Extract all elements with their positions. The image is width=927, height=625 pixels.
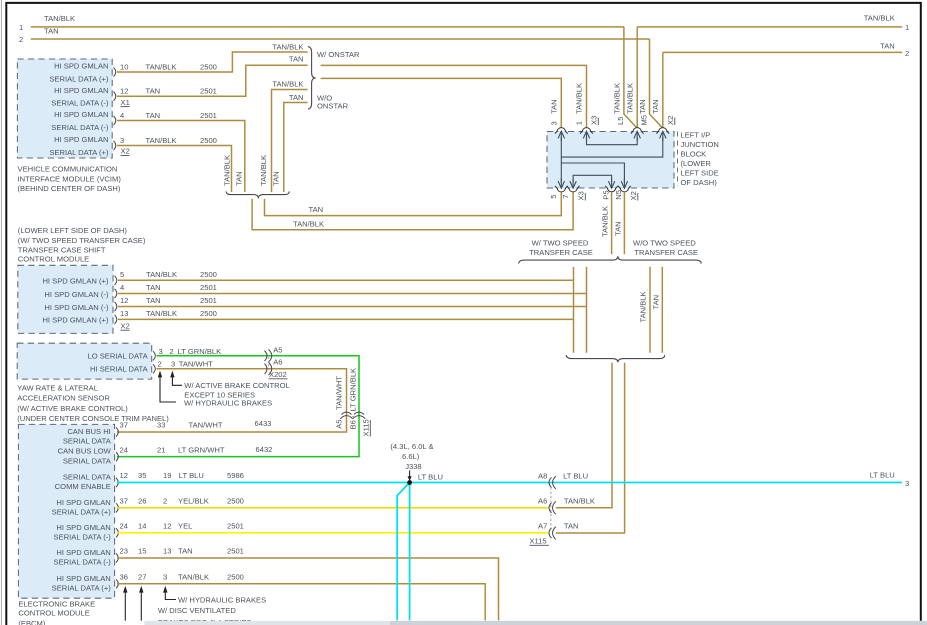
- svg-text:10: 10: [120, 62, 128, 71]
- wire LT BLU branch down 2: [397, 483, 409, 621]
- svg-text:LEFT SIDE: LEFT SIDE: [681, 169, 719, 178]
- svg-text:TAN/BLK: TAN/BLK: [146, 62, 177, 71]
- svg-text:TRANSFER CASE: TRANSFER CASE: [634, 248, 698, 257]
- brace transfer merge: [566, 355, 665, 362]
- wire merged TAN to junction pin3: [321, 78, 562, 127]
- svg-text:TAN: TAN: [550, 99, 559, 114]
- junction block name: [677, 132, 679, 187]
- svg-text:12: 12: [120, 471, 128, 480]
- svg-text:6432: 6432: [256, 445, 273, 454]
- wire w/o onstar TAN/BLK branch: [272, 90, 308, 193]
- svg-text:SERIAL DATA (-): SERIAL DATA (-): [51, 99, 109, 108]
- svg-text:TAN/BLK: TAN/BLK: [639, 291, 648, 322]
- svg-text:5986: 5986: [227, 471, 244, 480]
- wire 2 TAN right segment: [663, 51, 902, 53]
- svg-text:(LOWER LEFT SIDE OF DASH): (LOWER LEFT SIDE OF DASH): [18, 226, 128, 235]
- svg-text:TAN: TAN: [44, 27, 59, 36]
- svg-text:TAN: TAN: [289, 93, 304, 102]
- yaw sensor box: [17, 343, 152, 379]
- svg-text:13: 13: [163, 547, 171, 556]
- svg-text:P5: P5: [602, 190, 611, 199]
- svg-text:LT GRN/BLK: LT GRN/BLK: [178, 347, 222, 356]
- svg-text:6.6L): 6.6L): [402, 452, 420, 461]
- svg-text:21: 21: [157, 445, 165, 454]
- svg-text:X202: X202: [269, 370, 287, 379]
- VCIM pin brackets: [114, 67, 116, 76]
- svg-text:2: 2: [905, 49, 909, 58]
- svg-text:TAN/BLK: TAN/BLK: [44, 14, 75, 23]
- svg-text:TAN: TAN: [309, 205, 324, 214]
- svg-text:A5: A5: [335, 420, 344, 429]
- svg-text:35: 35: [138, 471, 146, 480]
- svg-text:EXCEPT 10 SERIES: EXCEPT 10 SERIES: [184, 390, 255, 399]
- junction pin P5: [607, 188, 615, 192]
- svg-text:3: 3: [120, 136, 124, 145]
- svg-text:4: 4: [120, 111, 124, 120]
- wire EBCM serial data comm enable LT BLU 5986: [117, 482, 902, 484]
- wire LT BLU branch down 1: [409, 483, 411, 621]
- svg-text:HI SERIAL DATA: HI SERIAL DATA: [90, 364, 149, 373]
- junction block box: [547, 132, 674, 189]
- svg-text:SERIAL DATA (-): SERIAL DATA (-): [51, 123, 109, 132]
- junction bus 3-5 vertical: [560, 137, 562, 183]
- svg-text:(LOWER: (LOWER: [681, 159, 712, 168]
- junction pin 3: [557, 128, 565, 132]
- svg-text:CAN BUS LOW: CAN BUS LOW: [58, 447, 112, 456]
- svg-text:(EBCM): (EBCM): [18, 619, 45, 625]
- svg-text:B6: B6: [349, 420, 358, 429]
- connector X115 A8: [549, 477, 552, 487]
- svg-text:LT BLU: LT BLU: [563, 471, 588, 480]
- svg-text:TAN: TAN: [146, 111, 161, 120]
- svg-text:36: 36: [120, 573, 128, 582]
- svg-text:HI SPD GMLAN: HI SPD GMLAN: [54, 86, 108, 95]
- EBCM config arrow 3: [163, 586, 167, 593]
- svg-text:(W/ ACTIVE BRAKE CONTROL): (W/ ACTIVE BRAKE CONTROL): [17, 404, 128, 413]
- VCIM module box: [17, 59, 112, 158]
- junction pin 5: [557, 188, 565, 192]
- svg-text:24: 24: [120, 522, 128, 531]
- svg-text:W/O TWO SPEED: W/O TWO SPEED: [633, 238, 696, 247]
- connector X115 upper: [342, 412, 352, 414]
- junction pin N5: [620, 188, 628, 192]
- svg-text:ONSTAR: ONSTAR: [317, 101, 349, 110]
- svg-text:14: 14: [138, 522, 146, 531]
- EBCM config arrow 2: [139, 586, 143, 593]
- svg-text:A6: A6: [273, 358, 282, 367]
- svg-text:SERIAL DATA: SERIAL DATA: [63, 437, 112, 446]
- svg-text:W/ DISC VENTILATED: W/ DISC VENTILATED: [158, 606, 236, 615]
- svg-text:SERIAL DATA (+): SERIAL DATA (+): [52, 584, 112, 593]
- svg-text:TAN/BLK: TAN/BLK: [864, 14, 895, 23]
- svg-text:13: 13: [120, 309, 128, 318]
- svg-text:X1: X1: [121, 98, 130, 107]
- node J338 splice dot: [407, 480, 412, 485]
- svg-text:3: 3: [905, 479, 909, 488]
- svg-text:2501: 2501: [200, 111, 217, 120]
- wire w/o tcase TAN/BLK: [649, 267, 651, 353]
- junction pin 7: [569, 188, 577, 192]
- svg-text:2: 2: [158, 360, 162, 369]
- svg-text:2: 2: [19, 35, 23, 44]
- svg-text:23: 23: [120, 547, 128, 556]
- svg-text:X2: X2: [666, 116, 675, 125]
- wire LO serial LT GRN/BLK: [117, 356, 359, 457]
- svg-text:TAN: TAN: [272, 171, 281, 186]
- svg-text:X115: X115: [529, 537, 546, 546]
- svg-text:ACCELERATION SENSOR: ACCELERATION SENSOR: [17, 394, 110, 403]
- svg-text:TAN/BLK: TAN/BLK: [146, 270, 177, 279]
- svg-text:2: 2: [163, 497, 167, 506]
- svg-text:W/ TWO SPEED: W/ TWO SPEED: [532, 238, 589, 247]
- svg-text:24: 24: [120, 445, 128, 454]
- svg-text:TAN: TAN: [880, 42, 895, 51]
- svg-text:A6: A6: [538, 496, 547, 505]
- connector X115 dashed link: [550, 487, 552, 528]
- svg-text:7: 7: [561, 195, 570, 199]
- wire merged TAN/BLK to junction pin7: [252, 192, 573, 230]
- svg-text:2501: 2501: [200, 283, 217, 292]
- svg-text:TAN/BLK: TAN/BLK: [223, 155, 232, 186]
- EBCM config arrow 1: [123, 586, 127, 593]
- svg-text:1: 1: [905, 23, 909, 32]
- svg-text:37: 37: [120, 497, 128, 506]
- svg-text:X2: X2: [121, 147, 130, 156]
- svg-text:26: 26: [138, 497, 146, 506]
- yaw config arrow 2: [170, 371, 174, 378]
- svg-text:2500: 2500: [200, 136, 217, 145]
- svg-text:TAN/BLK: TAN/BLK: [178, 573, 209, 582]
- connector X202: [265, 351, 268, 361]
- wire VCIM pin4 TAN 2501: [117, 121, 245, 193]
- wire 2 TAN left segment: [31, 38, 650, 40]
- svg-text:X115: X115: [362, 419, 371, 436]
- wire VCIM pin12 TAN 2501: [117, 65, 308, 96]
- svg-text:TAN: TAN: [614, 221, 623, 236]
- junction bus 3-M5: [561, 137, 663, 157]
- svg-text:12: 12: [120, 87, 128, 96]
- svg-text:2: 2: [169, 347, 173, 356]
- svg-text:2500: 2500: [200, 270, 217, 279]
- svg-text:L5: L5: [616, 117, 625, 125]
- svg-text:TRANSFER CASE SHIFT: TRANSFER CASE SHIFT: [18, 245, 106, 254]
- svg-text:X2: X2: [629, 191, 638, 200]
- svg-text:HI SPD GMLAN: HI SPD GMLAN: [54, 135, 108, 144]
- svg-text:SERIAL DATA (+): SERIAL DATA (+): [52, 508, 112, 517]
- wire w/ tcase TAN/BLK: [573, 267, 575, 353]
- wire w/ tcase TAN: [586, 267, 588, 353]
- svg-text:TAN/BLK: TAN/BLK: [259, 155, 268, 186]
- wire EBCM hi spd gmlan TAN/BLK 2500: [117, 584, 485, 621]
- svg-text:SERIAL DATA: SERIAL DATA: [63, 456, 112, 465]
- svg-text:A8: A8: [538, 471, 547, 480]
- svg-text:LT BLU: LT BLU: [870, 470, 895, 479]
- wire merged TAN to junction pin5: [265, 192, 562, 215]
- svg-text:TRANSFER CASE: TRANSFER CASE: [529, 248, 593, 257]
- svg-text:TAN/WHT: TAN/WHT: [189, 421, 223, 430]
- junction bus 7-P5: [573, 175, 612, 182]
- wire line2-right drop to M5: [662, 52, 664, 127]
- wire N5 TAN down: [623, 192, 625, 254]
- wire transfer pin12 TAN: [118, 306, 587, 308]
- svg-text:BLOCK: BLOCK: [681, 150, 707, 159]
- svg-text:TAN/BLK: TAN/BLK: [146, 309, 177, 318]
- svg-text:TAN: TAN: [146, 296, 161, 305]
- svg-text:TAN: TAN: [178, 547, 193, 556]
- svg-text:ELECTRONIC BRAKE: ELECTRONIC BRAKE: [18, 599, 95, 608]
- svg-text:HI SPD GMLAN (+): HI SPD GMLAN (+): [42, 316, 109, 325]
- wire EBCM hi spd gmlan TAN 2501: [117, 558, 499, 620]
- EBCM box: [18, 424, 114, 598]
- connector X115 A7: [549, 528, 552, 538]
- svg-text:COMM ENABLE: COMM ENABLE: [55, 482, 111, 491]
- svg-text:2500: 2500: [200, 309, 217, 318]
- svg-text:1: 1: [19, 23, 23, 32]
- svg-text:YEL: YEL: [178, 522, 192, 531]
- wire line2-left drop to M5: [650, 39, 663, 127]
- svg-text:3: 3: [171, 360, 175, 369]
- svg-text:3: 3: [163, 573, 167, 582]
- wire EBCM hi spd gmlan YEL/BLK 2500: [117, 507, 548, 509]
- svg-text:2500: 2500: [227, 497, 244, 506]
- svg-text:YAW RATE & LATERAL: YAW RATE & LATERAL: [17, 383, 98, 392]
- wire 1 TAN/BLK right segment: [637, 26, 902, 28]
- svg-text:TAN/BLK: TAN/BLK: [575, 83, 584, 114]
- brace merge below VCIM: [226, 191, 289, 198]
- wire w/o tcase TAN: [661, 267, 663, 353]
- svg-text:19: 19: [163, 471, 171, 480]
- bottom scrollbar: [144, 621, 927, 625]
- svg-text:TAN: TAN: [651, 99, 660, 114]
- svg-text:4: 4: [120, 283, 124, 292]
- wire TAN/BLK down to A6: [556, 363, 612, 508]
- junction bus to N5: [561, 163, 624, 183]
- svg-text:LT GRN/WHT: LT GRN/WHT: [178, 445, 225, 454]
- svg-text:(W/ TWO SPEED TRANSFER CASE): (W/ TWO SPEED TRANSFER CASE): [18, 236, 146, 245]
- svg-text:YEL/BLK: YEL/BLK: [178, 497, 209, 506]
- wire EBCM hi spd gmlan YEL 2501: [117, 532, 548, 534]
- svg-text:HI SPD GMLAN (-): HI SPD GMLAN (-): [44, 303, 109, 312]
- wire TAN down to A7: [556, 363, 625, 533]
- svg-text:CAN BUS HI: CAN BUS HI: [67, 427, 110, 436]
- svg-text:HI SPD GMLAN: HI SPD GMLAN: [54, 62, 108, 71]
- svg-text:TAN/BLK: TAN/BLK: [626, 83, 635, 114]
- wire VCIM pin10 TAN/BLK 2500: [117, 52, 308, 72]
- svg-text:HI SPD GMLAN: HI SPD GMLAN: [56, 523, 110, 532]
- svg-text:12: 12: [120, 296, 128, 305]
- J338 pointer arrow: [409, 471, 411, 478]
- svg-text:LT BLU: LT BLU: [418, 472, 443, 481]
- svg-text:JUNCTION: JUNCTION: [681, 140, 719, 149]
- svg-text:CONTROL MODULE: CONTROL MODULE: [18, 609, 89, 618]
- svg-text:W/ ONSTAR: W/ ONSTAR: [317, 50, 360, 59]
- svg-text:2500: 2500: [227, 573, 244, 582]
- svg-text:TAN: TAN: [638, 99, 647, 114]
- svg-text:LT GRN/BLK: LT GRN/BLK: [349, 368, 358, 412]
- wire transfer pin5 TAN/BLK: [118, 279, 574, 281]
- svg-text:CONTROL MODULE: CONTROL MODULE: [18, 255, 89, 264]
- svg-text:HI SPD GMLAN: HI SPD GMLAN: [56, 498, 110, 507]
- transfer module box: [18, 265, 113, 333]
- svg-text:(BEHIND CENTER OF DASH): (BEHIND CENTER OF DASH): [18, 184, 121, 193]
- svg-text:6433: 6433: [255, 419, 272, 428]
- svg-text:33: 33: [157, 421, 165, 430]
- wire line1-right drop to L5: [636, 27, 638, 128]
- junction pin 1: [582, 128, 590, 132]
- svg-text:5: 5: [120, 270, 124, 279]
- yaw config arrow 1: [158, 371, 162, 378]
- svg-text:A5: A5: [273, 345, 282, 354]
- svg-text:(4.3L, 6.0L &: (4.3L, 6.0L &: [390, 442, 433, 451]
- svg-text:TAN/BLK: TAN/BLK: [272, 80, 303, 89]
- svg-text:2501: 2501: [200, 296, 217, 305]
- svg-text:SERIAL DATA (+): SERIAL DATA (+): [49, 74, 109, 83]
- wire 1 TAN/BLK left segment: [31, 26, 624, 28]
- svg-text:X3: X3: [590, 116, 599, 125]
- svg-text:TAN: TAN: [289, 55, 304, 64]
- svg-text:3: 3: [550, 121, 559, 125]
- svg-text:HI SPD GMLAN: HI SPD GMLAN: [56, 574, 110, 583]
- svg-text:1: 1: [575, 121, 584, 125]
- svg-text:TAN/WHT: TAN/WHT: [335, 376, 344, 410]
- junction bus 1-L5: [587, 137, 638, 145]
- svg-text:W/ HYDRAULIC BRAKES: W/ HYDRAULIC BRAKES: [184, 398, 272, 407]
- wire line1-left drop to L5: [624, 27, 637, 128]
- wire transfer pin13 TAN/BLK: [118, 318, 574, 320]
- svg-text:2501: 2501: [200, 87, 217, 96]
- svg-text:TAN/BLK: TAN/BLK: [564, 496, 595, 505]
- svg-text:37: 37: [120, 421, 128, 430]
- svg-text:27: 27: [138, 573, 146, 582]
- svg-text:TAN/WHT: TAN/WHT: [179, 360, 213, 369]
- svg-text:J338: J338: [405, 462, 421, 471]
- svg-text:HI SPD GMLAN: HI SPD GMLAN: [56, 548, 110, 557]
- svg-text:TAN/BLK: TAN/BLK: [613, 83, 622, 114]
- svg-text:X2: X2: [121, 321, 130, 330]
- window left edge: [0, 0, 2, 625]
- svg-text:3: 3: [159, 347, 163, 356]
- svg-text:LO SERIAL DATA: LO SERIAL DATA: [87, 351, 148, 360]
- svg-text:SERIAL DATA (-): SERIAL DATA (-): [54, 558, 112, 567]
- svg-text:TAN/BLK: TAN/BLK: [272, 42, 303, 51]
- svg-text:(UNDER CENTER CONSOLE TRIM PAN: (UNDER CENTER CONSOLE TRIM PANEL): [17, 414, 169, 423]
- svg-text:HI SPD GMLAN: HI SPD GMLAN: [54, 110, 108, 119]
- svg-text:5: 5: [549, 195, 558, 199]
- svg-text:SERIAL DATA (+): SERIAL DATA (+): [49, 148, 109, 157]
- svg-text:TAN/BLK: TAN/BLK: [601, 206, 610, 237]
- svg-text:LEFT I/P: LEFT I/P: [681, 130, 711, 139]
- wire HI serial TAN/WHT: [117, 369, 347, 432]
- svg-text:TAN/BLK: TAN/BLK: [293, 220, 324, 229]
- svg-text:LT BLU: LT BLU: [179, 471, 204, 480]
- svg-text:N5: N5: [614, 190, 623, 200]
- brace transfer case split: [519, 256, 702, 263]
- svg-text:OF DASH): OF DASH): [681, 178, 718, 187]
- svg-text:A7: A7: [538, 521, 547, 530]
- svg-text:TAN: TAN: [652, 295, 661, 310]
- svg-text:HI SPD GMLAN (+): HI SPD GMLAN (+): [42, 277, 109, 286]
- svg-text:TAN/BLK: TAN/BLK: [146, 136, 177, 145]
- svg-text:W/ HYDRAULIC BRAKES: W/ HYDRAULIC BRAKES: [178, 596, 266, 605]
- wire P5 TAN/BLK down: [611, 192, 613, 254]
- svg-text:SERIAL DATA: SERIAL DATA: [63, 473, 112, 482]
- wire transfer pin4 TAN: [118, 293, 587, 295]
- svg-text:W/ ACTIVE BRAKE CONTROL: W/ ACTIVE BRAKE CONTROL: [184, 381, 289, 390]
- svg-text:X3: X3: [577, 191, 586, 200]
- svg-text:15: 15: [138, 547, 146, 556]
- svg-text:2500: 2500: [200, 62, 217, 71]
- svg-text:M5: M5: [640, 115, 649, 126]
- connector X115 A6: [549, 503, 552, 513]
- svg-text:SERIAL DATA (-): SERIAL DATA (-): [54, 533, 112, 542]
- svg-text:12: 12: [163, 522, 171, 531]
- svg-text:2501: 2501: [227, 547, 244, 556]
- wire merged TAN/BLK to junction pin1: [321, 65, 587, 127]
- junction pin M5: [659, 128, 667, 132]
- svg-text:VEHICLE COMMUNICATION: VEHICLE COMMUNICATION: [18, 165, 118, 174]
- svg-text:TAN: TAN: [146, 87, 161, 96]
- wire w/o onstar TAN branch: [284, 103, 308, 193]
- svg-text:TAN: TAN: [235, 171, 244, 186]
- svg-text:2501: 2501: [227, 522, 244, 531]
- junction pin L5: [633, 128, 641, 132]
- wire VCIM pin3 TAN/BLK 2500: [117, 146, 232, 193]
- svg-text:INTERFACE MODULE (VCIM): INTERFACE MODULE (VCIM): [18, 174, 122, 183]
- brace ONSTAR: [308, 47, 316, 110]
- svg-text:HI SPD GMLAN (-): HI SPD GMLAN (-): [44, 290, 109, 299]
- svg-text:TAN: TAN: [146, 283, 161, 292]
- svg-text:TAN: TAN: [564, 521, 579, 530]
